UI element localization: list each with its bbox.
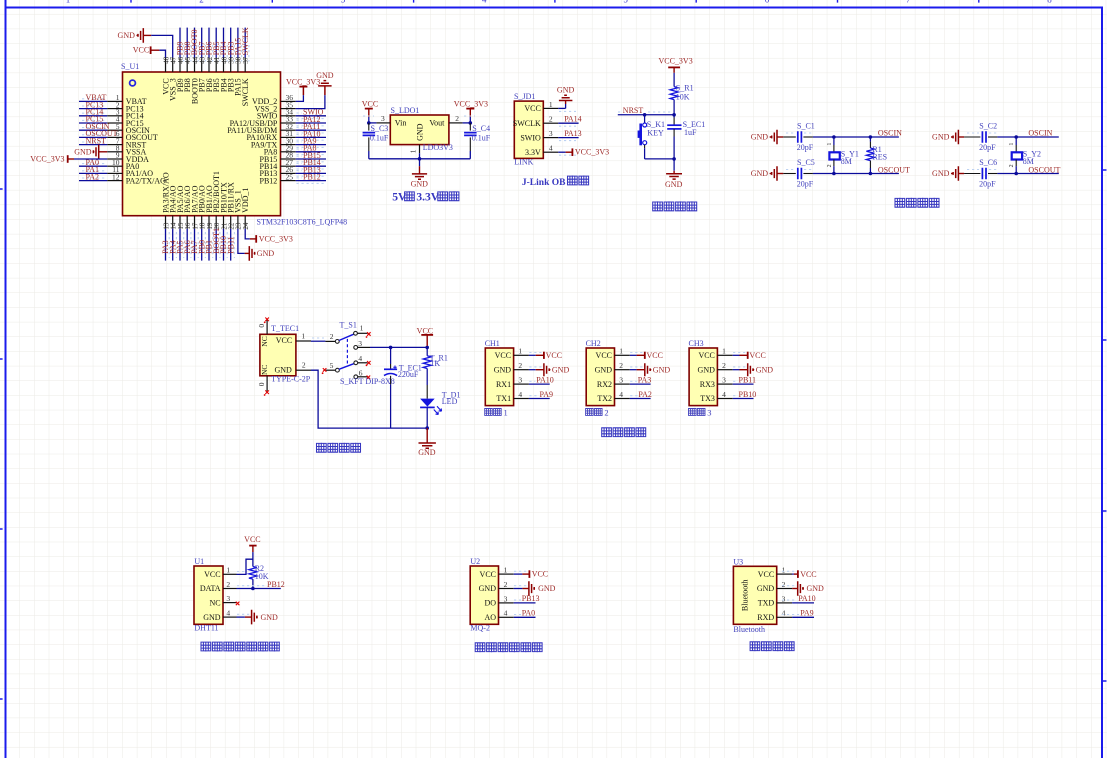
svg-text:GND: GND <box>203 613 221 622</box>
switch S1 mechanical link <box>346 339 348 366</box>
svg-text:3.3V: 3.3V <box>525 148 541 157</box>
svg-text:SWIO: SWIO <box>520 133 541 142</box>
svg-text:3: 3 <box>518 375 522 384</box>
svg-text:2: 2 <box>330 332 334 341</box>
svg-text:DHT11: DHT11 <box>194 623 218 632</box>
caption reset circuit <box>653 201 697 211</box>
sensor U2 MQ-2 body <box>470 557 514 633</box>
wire OSCOUT right <box>997 165 1060 175</box>
svg-text:OSCIN: OSCIN <box>878 129 902 138</box>
svg-text:1: 1 <box>66 0 71 4</box>
svg-text:4: 4 <box>619 390 623 399</box>
svg-text:VCC_3V3: VCC_3V3 <box>658 56 692 65</box>
svg-text:U3: U3 <box>733 557 743 566</box>
switch S1 pin 3 output <box>354 339 370 349</box>
connector CH2 serial header body <box>586 339 630 406</box>
switch S1 section B (pins 5-4) <box>322 354 371 374</box>
svg-text:1: 1 <box>549 100 553 109</box>
svg-text:1: 1 <box>226 566 230 575</box>
svg-text:5: 5 <box>330 361 334 370</box>
switch S1 pin 6 no-connect <box>340 368 395 386</box>
svg-text:VCC: VCC <box>647 351 663 360</box>
svg-text:GND: GND <box>698 365 716 374</box>
svg-text:VCC_3V3: VCC_3V3 <box>259 235 293 244</box>
power flag VCC_3V3 above C4 <box>454 99 488 123</box>
svg-text:0: 0 <box>257 324 266 328</box>
capacitor C6 20pF (S_C6) <box>964 158 999 189</box>
svg-text:PB13: PB13 <box>522 594 540 603</box>
svg-text:10K: 10K <box>676 92 690 101</box>
wire Vout node <box>463 116 475 125</box>
power flag VCC_3V3 reset <box>658 56 692 86</box>
svg-text:DATA: DATA <box>200 584 221 593</box>
svg-text:VCC: VCC <box>749 351 765 360</box>
ground at CH2 pin2 <box>630 363 671 376</box>
svg-text:DO: DO <box>484 599 496 608</box>
svg-text:6: 6 <box>765 0 770 4</box>
wires U1 top nets <box>180 28 249 62</box>
svg-text:GND: GND <box>479 584 497 593</box>
svg-text:KEY: KEY <box>647 129 664 138</box>
wire bottom rail of LDO <box>369 153 471 160</box>
svg-text:S_JD1: S_JD1 <box>514 92 535 101</box>
wire CH3 TX net PB10 <box>733 390 757 399</box>
svg-text:20pF: 20pF <box>797 180 814 189</box>
ground left crystal top (C1) <box>751 130 784 145</box>
resistor R2 10K <box>249 564 269 589</box>
LED D1 (T_D1) <box>420 391 460 428</box>
svg-text:Bluetooth: Bluetooth <box>733 625 765 634</box>
ground at U2 pin2 <box>514 581 556 596</box>
wire U3 RXD net PA9 <box>782 609 814 618</box>
svg-text:4: 4 <box>504 609 508 618</box>
svg-text:3.3V: 3.3V <box>416 192 439 204</box>
svg-text:OSCIN: OSCIN <box>1028 129 1052 138</box>
resistor R1 10K (S_R1) <box>670 84 693 115</box>
capacitor C2 20pF (S_C2) <box>964 121 999 152</box>
svg-text:PA14: PA14 <box>564 114 582 123</box>
capacitor EC1 220uF (T_EC1) <box>384 347 422 428</box>
ground at U1 pin 47 VSS_3 <box>118 28 173 57</box>
power flag VCC_3V3 at U1 pin 36 VDD_2 <box>286 78 320 102</box>
svg-text:TX2: TX2 <box>597 394 612 403</box>
svg-text:PB11: PB11 <box>226 236 235 254</box>
power flag VCC at U2 pin1 <box>514 570 548 579</box>
net labels U1 top <box>176 27 250 55</box>
svg-text:VCC: VCC <box>546 351 562 360</box>
svg-text:220uF: 220uF <box>398 370 419 379</box>
svg-text:GND: GND <box>932 169 950 178</box>
svg-text:PA10: PA10 <box>536 375 554 384</box>
connector CH1 serial header body <box>485 339 529 406</box>
svg-text:4: 4 <box>782 609 786 618</box>
wire OSCOUT left <box>813 165 910 175</box>
power flag VCC at U1 pin 48 <box>133 46 166 58</box>
svg-text:GND: GND <box>316 71 334 80</box>
wire DHT11 pin1 to VCC <box>237 559 253 574</box>
caption 5V to 3.3V circuit <box>392 191 459 203</box>
svg-text:J-Link OB: J-Link OB <box>522 178 566 188</box>
svg-text:4: 4 <box>226 609 230 618</box>
svg-text:PA9: PA9 <box>540 390 554 399</box>
ground reset circuit <box>665 159 683 189</box>
capacitor C5 20pF (S_C5) <box>783 158 814 189</box>
wire JD1 pin3 PA13 <box>558 129 581 138</box>
svg-text:GND: GND <box>557 85 575 94</box>
svg-text:VCC: VCC <box>362 99 378 108</box>
power flag VCC at CH3 pin1 <box>733 351 766 360</box>
svg-text:PA0: PA0 <box>522 609 536 618</box>
svg-text:T_TEC1: T_TEC1 <box>271 324 299 333</box>
svg-text:NC: NC <box>209 598 220 607</box>
ground at CH3 pin2 <box>733 363 774 376</box>
connector TEC1 TYPE-C body <box>260 324 311 384</box>
svg-text:S_KFT DIP-8X8: S_KFT DIP-8X8 <box>340 377 395 386</box>
svg-text:PA3: PA3 <box>638 375 652 384</box>
svg-text:OSCOUT: OSCOUT <box>878 165 910 174</box>
ground right crystal top (C2) <box>932 130 964 145</box>
svg-text:PA10: PA10 <box>798 594 816 603</box>
svg-text:VCC_3V3: VCC_3V3 <box>454 99 488 108</box>
caption temperature humidity module <box>201 642 279 652</box>
svg-text:1: 1 <box>360 324 364 333</box>
wire OSCIN right <box>997 129 1058 139</box>
svg-text:GND: GND <box>257 249 275 258</box>
svg-text:6: 6 <box>359 368 363 377</box>
wires U1 right side nets <box>296 113 326 183</box>
svg-text:0.1uF: 0.1uF <box>370 134 389 143</box>
svg-text:2: 2 <box>549 115 553 124</box>
svg-text:VCC_3V3: VCC_3V3 <box>286 78 320 87</box>
wire switch output rail VCC <box>370 346 429 350</box>
power flag VCC_3V3 at U1 pin 24 VDD_1 <box>245 229 293 244</box>
svg-text:TX3: TX3 <box>700 394 715 403</box>
svg-text:GND: GND <box>538 584 556 593</box>
ground at U3 pin2 <box>782 581 824 596</box>
switch S1 section A (pins 2-1) <box>325 321 370 344</box>
svg-text:S_C3: S_C3 <box>371 124 389 133</box>
ground right crystal bottom (C6) <box>932 166 964 181</box>
svg-text:2: 2 <box>302 361 306 370</box>
ground at CH1 pin2 <box>529 363 570 376</box>
MCU U1 STM32F103C8T6_LQFP48 body <box>121 62 347 226</box>
svg-text:GND: GND <box>118 31 136 40</box>
svg-text:25: 25 <box>286 172 294 181</box>
svg-text:3: 3 <box>619 375 623 384</box>
svg-text:4: 4 <box>518 390 522 399</box>
crystal Y1 8M (S_Y1) <box>827 137 859 174</box>
power flag VCC at CH1 pin1 <box>529 351 562 360</box>
svg-text:RX1: RX1 <box>496 380 511 389</box>
svg-text:3: 3 <box>226 594 230 603</box>
svg-text:VCC: VCC <box>596 351 612 360</box>
JD1 pins 1-4 <box>543 100 576 155</box>
svg-text:S_C2: S_C2 <box>979 121 997 130</box>
svg-text:VCC: VCC <box>524 104 540 113</box>
resistor R1 RES feedback <box>866 137 887 174</box>
svg-text:1: 1 <box>409 149 418 153</box>
svg-text:1: 1 <box>518 347 522 356</box>
svg-text:S_R1: S_R1 <box>676 84 694 93</box>
svg-text:NC: NC <box>260 336 269 346</box>
net labels U1 bottom <box>161 228 235 254</box>
power flag VCC at U3 pin1 <box>782 570 817 579</box>
net labels U1 left <box>86 93 118 181</box>
capacitor C4 0.1uF <box>464 123 491 159</box>
svg-text:Vout: Vout <box>429 119 445 128</box>
svg-text:S_C5: S_C5 <box>797 158 815 167</box>
svg-text:VDD_1: VDD_1 <box>241 188 250 213</box>
U1 right pins 36-25 <box>281 93 296 181</box>
wire DATA net PB12 <box>237 580 285 590</box>
svg-text:3: 3 <box>381 114 385 123</box>
svg-text:RX3: RX3 <box>700 380 715 389</box>
svg-text:GND: GND <box>751 133 769 142</box>
power flag VCC_3V3 at JD1 pin4 <box>558 148 609 157</box>
svg-text:2: 2 <box>619 361 623 370</box>
svg-text:24: 24 <box>242 222 250 230</box>
caption J-Link OB interface <box>522 176 589 188</box>
label serial port 2 <box>586 407 609 417</box>
svg-text:VCC: VCC <box>204 570 220 579</box>
svg-text:PA9: PA9 <box>800 609 814 618</box>
svg-text:GND: GND <box>595 365 613 374</box>
svg-text:3: 3 <box>504 594 508 603</box>
svg-text:CH2: CH2 <box>586 339 601 348</box>
svg-text:TYPE-C-2P: TYPE-C-2P <box>271 375 311 384</box>
wire CH2 RX net PA3 <box>630 375 652 384</box>
svg-text:SWCLK: SWCLK <box>241 27 250 55</box>
svg-text:U2: U2 <box>470 557 480 566</box>
ground at U1 pin 35 VSS_2 <box>296 71 334 109</box>
svg-text:PA13: PA13 <box>564 129 582 138</box>
svg-text:VCC: VCC <box>276 336 292 345</box>
svg-text:GND: GND <box>751 169 769 178</box>
svg-text:SWCLK: SWCLK <box>241 78 250 106</box>
svg-text:GND: GND <box>411 180 429 189</box>
ground at JD1 pin 1 <box>557 85 575 108</box>
svg-text:PB12: PB12 <box>303 173 321 182</box>
svg-text:S_U1: S_U1 <box>121 62 139 71</box>
svg-text:PA2: PA2 <box>86 172 100 181</box>
svg-text:2: 2 <box>1009 164 1015 167</box>
wire VCC node to Vin <box>363 116 376 125</box>
power flag VCC_3V3 at U1 pin 9 VDDA <box>30 155 107 164</box>
svg-text:VCC: VCC <box>244 535 260 544</box>
svg-text:VCC: VCC <box>698 351 714 360</box>
svg-text:VCC_3V3: VCC_3V3 <box>30 155 64 164</box>
svg-text:TXD: TXD <box>758 599 775 608</box>
svg-text:VCC: VCC <box>532 570 548 579</box>
svg-text:PB11: PB11 <box>739 375 757 384</box>
wire CH3 RX net PB11 <box>733 375 756 384</box>
svg-text:3: 3 <box>782 594 786 603</box>
svg-text:GND: GND <box>261 613 279 622</box>
svg-text:GND: GND <box>494 365 512 374</box>
wires U1 bottom nets <box>166 229 235 261</box>
capacitor C1 20pF (S_C1) <box>783 121 814 152</box>
svg-text:3: 3 <box>549 129 553 138</box>
svg-text:4: 4 <box>549 144 553 153</box>
svg-text:S_LDO1: S_LDO1 <box>391 106 420 115</box>
svg-text:2: 2 <box>518 361 522 370</box>
svg-text:0: 0 <box>257 382 266 386</box>
svg-text:GND: GND <box>756 365 774 374</box>
svg-text:1: 1 <box>619 347 623 356</box>
svg-text:3: 3 <box>722 375 726 384</box>
svg-text:PA2: PA2 <box>638 390 652 399</box>
svg-text:TX1: TX1 <box>496 394 511 403</box>
connector JD1 J-Link body <box>513 92 544 167</box>
U1 top pins 48-37 <box>162 56 250 72</box>
svg-text:2: 2 <box>199 0 204 4</box>
svg-text:2: 2 <box>455 114 459 123</box>
svg-text:Vin: Vin <box>395 119 407 128</box>
power flag VCC above C3 <box>362 99 378 123</box>
svg-text:S_K1: S_K1 <box>647 120 665 129</box>
svg-text:1: 1 <box>504 566 508 575</box>
ground at U1 pin 8 VSSA <box>74 145 107 160</box>
svg-text:MQ-2: MQ-2 <box>470 624 490 633</box>
svg-text:CH3: CH3 <box>689 339 704 348</box>
ground left crystal bottom (C5) <box>751 166 784 181</box>
U1 left pins 1-12 <box>107 93 122 181</box>
svg-text:8: 8 <box>1047 0 1052 4</box>
svg-text:4: 4 <box>358 354 362 363</box>
TEC1 top pin 0 no-connect <box>257 318 269 335</box>
svg-text:20pF: 20pF <box>979 180 996 189</box>
net labels U1 right <box>303 108 324 182</box>
caption power circuit <box>317 443 361 453</box>
label serial port 3 <box>689 407 712 417</box>
svg-text:1: 1 <box>827 143 833 146</box>
svg-text:GND: GND <box>274 365 292 374</box>
capacitor EC1 1uF (S_EC1) <box>667 115 705 161</box>
ground below LDO1 <box>411 159 429 189</box>
svg-text:GND: GND <box>416 123 425 141</box>
svg-text:VCC: VCC <box>133 46 149 55</box>
svg-text:NRST: NRST <box>86 136 107 145</box>
regulator LDO1 body <box>390 106 453 152</box>
svg-text:AO: AO <box>484 613 496 622</box>
svg-text:3: 3 <box>341 0 346 4</box>
connector CH3 serial header body <box>689 339 733 406</box>
ground power circuit <box>418 428 436 457</box>
svg-text:VCC: VCC <box>495 351 511 360</box>
svg-text:S_C4: S_C4 <box>472 124 490 133</box>
svg-text:NRST: NRST <box>623 106 644 115</box>
svg-text:CH1: CH1 <box>485 339 500 348</box>
svg-text:1: 1 <box>782 566 786 575</box>
TEC1 pin 2 GND wire <box>296 361 429 430</box>
svg-text:VCC: VCC <box>758 570 774 579</box>
TEC1 bottom pin 0 no-connect <box>257 376 269 396</box>
wire NRST net <box>618 106 676 116</box>
ground at DHT11 pin4 <box>237 610 279 625</box>
svg-text:NC: NC <box>260 365 269 375</box>
caption smoke detection module <box>475 642 542 652</box>
svg-text:U1: U1 <box>194 557 204 566</box>
LDO1 pin 1 GND <box>409 145 420 154</box>
svg-text:Bluetooth: Bluetooth <box>741 580 750 612</box>
wire U3 TXD net PA10 <box>782 594 816 603</box>
svg-text:1: 1 <box>1009 143 1015 146</box>
svg-text:2: 2 <box>226 580 230 589</box>
svg-text:GND: GND <box>653 365 671 374</box>
wire U2 AO net PA0 <box>514 609 536 618</box>
resistor R1 1K (T_R1) <box>423 347 448 398</box>
svg-text:2: 2 <box>782 580 786 589</box>
wires U1 left side nets <box>79 99 107 181</box>
svg-text:T_S1: T_S1 <box>340 321 357 330</box>
TEC1 pin 1 VCC wire to switch <box>296 332 326 342</box>
svg-text:LDO3V3: LDO3V3 <box>423 143 453 152</box>
svg-text:5: 5 <box>623 0 628 4</box>
LDO1 pin 2 Vout <box>449 114 463 123</box>
sensor U1 DHT11 body <box>194 557 237 632</box>
svg-text:2: 2 <box>604 407 608 417</box>
svg-text:LINK: LINK <box>514 158 533 167</box>
svg-text:GND: GND <box>552 365 570 374</box>
svg-text:PB10: PB10 <box>739 390 757 399</box>
svg-text:LED: LED <box>442 397 458 406</box>
svg-text:1uF: 1uF <box>684 128 697 137</box>
power flag VCC above R2 <box>244 535 260 567</box>
caption bluetooth module <box>750 641 794 651</box>
wire CH1 RX net PA10 <box>529 375 554 384</box>
svg-text:7: 7 <box>906 0 911 4</box>
svg-text:GND: GND <box>932 133 950 142</box>
svg-text:RES: RES <box>872 153 887 162</box>
svg-text:GND: GND <box>74 147 92 156</box>
svg-text:OSCOUT: OSCOUT <box>1028 165 1060 174</box>
svg-text:RX2: RX2 <box>597 380 612 389</box>
svg-text:2: 2 <box>722 361 726 370</box>
ground at U1 pin 23 VSS_1 <box>238 229 274 261</box>
label serial port 1 <box>485 407 508 417</box>
svg-text:4: 4 <box>482 0 487 4</box>
svg-text:2: 2 <box>504 580 508 589</box>
svg-text:1: 1 <box>301 332 305 341</box>
svg-text:VCC: VCC <box>800 570 816 579</box>
svg-text:PB12: PB12 <box>267 580 285 589</box>
svg-text:VCC: VCC <box>417 326 433 335</box>
capacitor C3 0.1uF <box>363 123 389 159</box>
switch K1 KEY <box>638 115 675 159</box>
svg-text:20pF: 20pF <box>979 143 996 152</box>
caption crystal circuit <box>895 198 939 208</box>
caption serial port circuit <box>602 427 646 437</box>
power flag VCC above R1 <box>417 326 433 347</box>
svg-text:8M: 8M <box>1023 157 1034 166</box>
svg-text:2: 2 <box>827 164 833 167</box>
wire OSCIN left <box>813 129 902 139</box>
crystal Y2 8M (S_Y2) <box>1009 137 1041 174</box>
svg-text:1: 1 <box>504 407 508 417</box>
module U3 Bluetooth body <box>733 557 792 634</box>
LDO1 pin 3 Vin <box>376 114 390 123</box>
svg-text:4: 4 <box>722 390 726 399</box>
svg-text:SWCLK: SWCLK <box>513 119 541 128</box>
power flag VCC at CH2 pin1 <box>630 351 663 360</box>
U1 bottom pins 13-24 <box>162 216 250 230</box>
svg-text:RXD: RXD <box>757 613 774 622</box>
svg-text:GND: GND <box>807 584 825 593</box>
svg-text:1K: 1K <box>430 359 440 368</box>
svg-text:20pF: 20pF <box>797 143 814 152</box>
svg-text:8M: 8M <box>841 157 852 166</box>
svg-text:GND: GND <box>418 448 436 457</box>
